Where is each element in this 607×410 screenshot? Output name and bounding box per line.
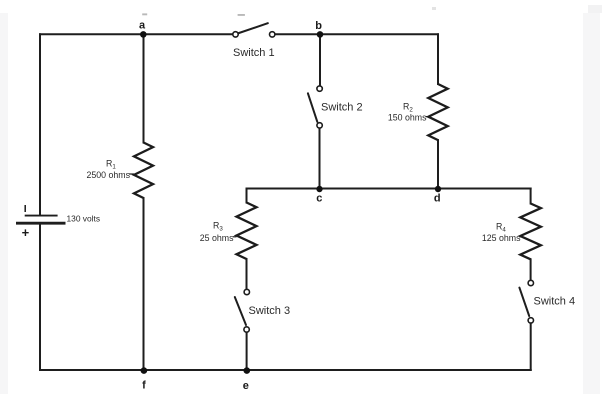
- svg-text:Switch 4: Switch 4: [534, 296, 576, 308]
- svg-text:I: I: [24, 203, 27, 215]
- svg-text:R4: R4: [496, 222, 506, 234]
- svg-text:f: f: [142, 380, 146, 392]
- svg-text:150 ohms: 150 ohms: [388, 112, 427, 122]
- svg-text:b: b: [315, 20, 322, 32]
- svg-text:Switch 3: Switch 3: [249, 305, 291, 317]
- svg-text:R1: R1: [106, 158, 116, 170]
- svg-text:Switch 2: Switch 2: [321, 102, 363, 114]
- svg-text:2500 ohms: 2500 ohms: [86, 170, 130, 180]
- svg-text:130 volts: 130 volts: [67, 214, 101, 224]
- svg-text:c: c: [316, 192, 322, 204]
- svg-text:125 ohms: 125 ohms: [482, 233, 521, 243]
- svg-text:d: d: [434, 193, 441, 205]
- svg-text:a: a: [139, 20, 146, 32]
- svg-text:R3: R3: [213, 221, 223, 233]
- svg-text:e: e: [243, 380, 249, 392]
- svg-text:25 ohms: 25 ohms: [200, 233, 234, 243]
- svg-text:+: +: [22, 225, 30, 240]
- svg-text:Switch 1: Switch 1: [233, 47, 275, 59]
